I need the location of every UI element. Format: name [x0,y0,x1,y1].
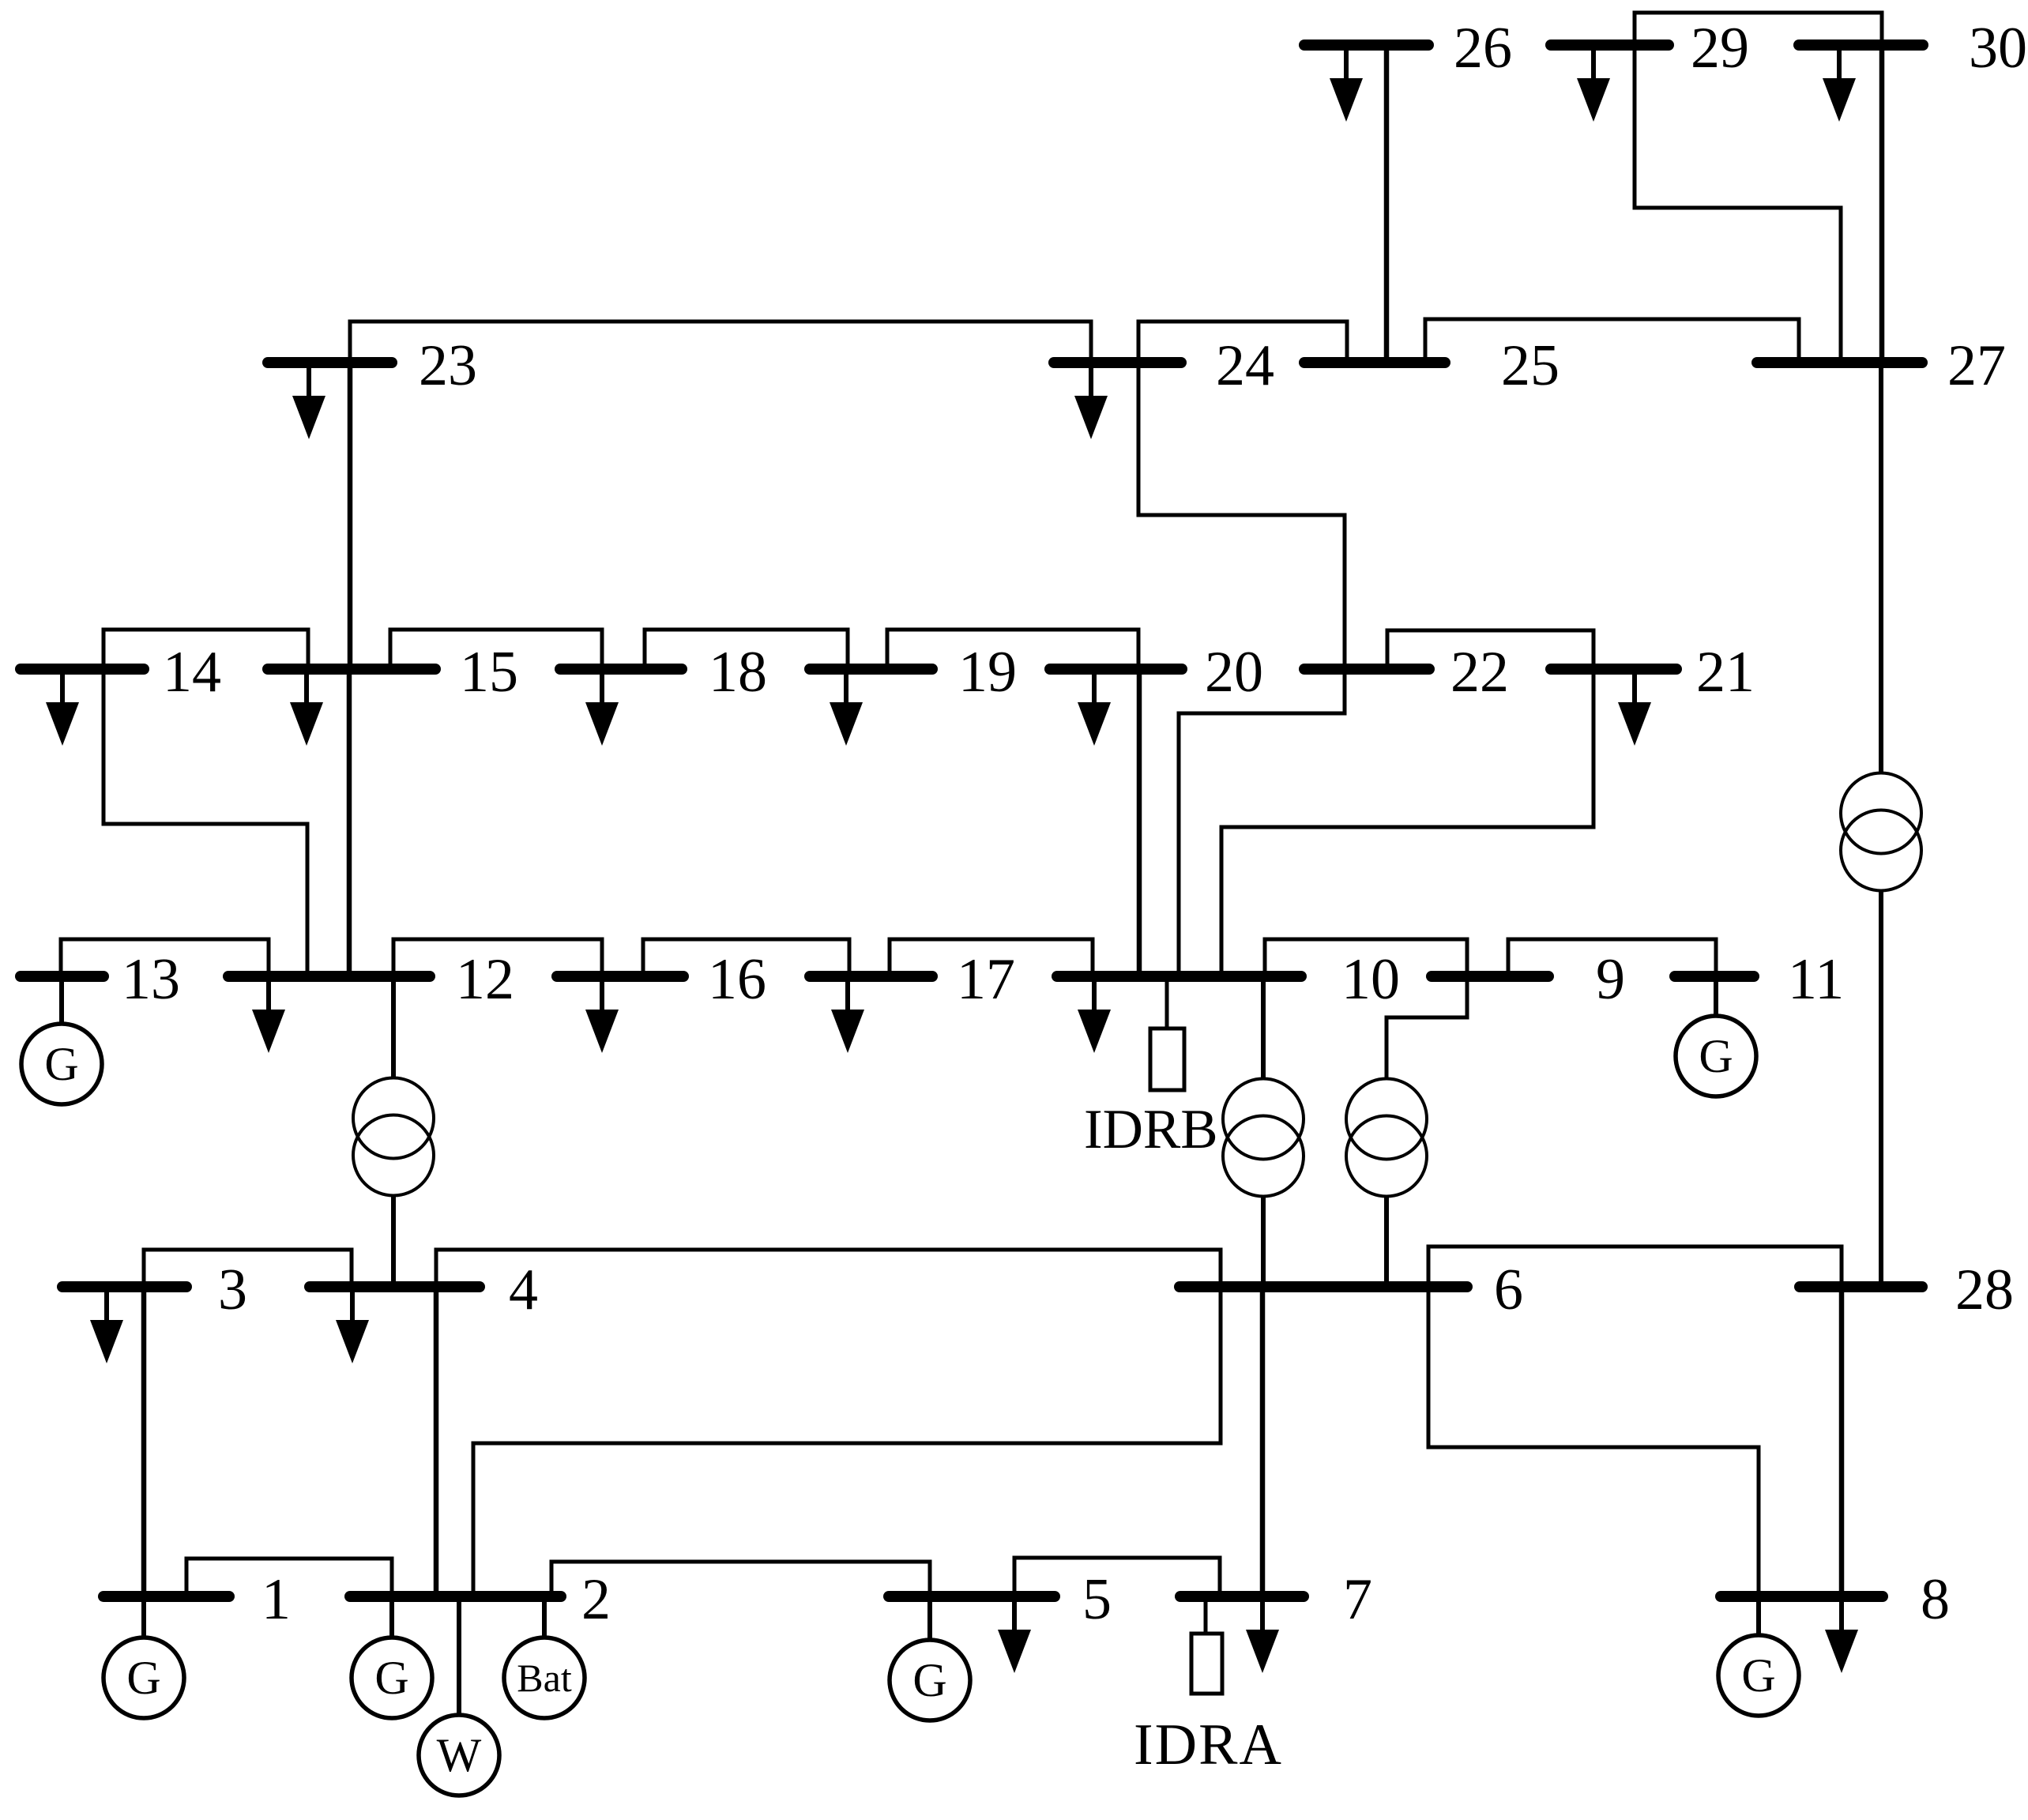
svg-text:25: 25 [1501,333,1560,398]
wire 14-15 [103,630,308,669]
wire 24-25 [1138,322,1347,363]
wire 10-20 [1137,669,1142,976]
load arrow bus 24 [1074,363,1108,439]
svg-text:7: 7 [1343,1567,1372,1632]
transformer 27-28 [1841,363,1921,1287]
svg-text:10: 10 [1341,947,1400,1012]
svg-text:13: 13 [122,947,180,1012]
bus 25 busbar [1304,357,1445,368]
bus 18 busbar [560,664,682,675]
generator G bus13 [21,976,102,1104]
svg-text:9: 9 [1596,947,1625,1012]
wire 23-24 [350,322,1091,363]
wire 10-21 [1221,669,1593,976]
svg-text:11: 11 [1788,947,1844,1012]
bus 17 busbar [810,971,932,982]
wire 25-27 [1425,319,1799,363]
svg-text:19: 19 [958,640,1017,705]
wire 2-6 [473,1287,1221,1596]
wire 10-17 [890,939,1093,976]
svg-text:12: 12 [456,947,514,1012]
wire 19-20 [887,630,1138,669]
wire 6-28 [1428,1247,1842,1287]
bus 28 busbar [1800,1281,1922,1292]
bus 29 busbar [1551,39,1669,51]
wire 1-2 [186,1559,392,1596]
svg-text:22: 22 [1450,640,1509,705]
wire 1-3 [141,1287,147,1596]
bus 24 busbar [1054,357,1181,368]
wire 5-7 [1014,1558,1220,1596]
wire 27-29 [1635,45,1841,363]
bus 22 busbar [1304,664,1429,675]
svg-text:2: 2 [581,1567,611,1632]
svg-text:G: G [44,1038,78,1090]
svg-text:Bat: Bat [517,1656,572,1700]
bus 30 busbar [1799,39,1923,51]
bus 13 busbar [21,971,103,982]
load arrow bus 15 [290,669,323,746]
svg-text:15: 15 [460,640,518,705]
svg-text:W: W [437,1729,482,1781]
svg-text:IDRB: IDRB [1084,1099,1218,1160]
device IDRA on bus 7 [1191,1596,1222,1694]
svg-text:29: 29 [1691,16,1749,81]
svg-text:8: 8 [1921,1567,1950,1632]
wire 16-17 [643,939,849,976]
wire 29-30 [1635,13,1882,45]
svg-text:G: G [374,1652,408,1704]
generator G bus5 [890,1596,970,1720]
wire 9-6 transformer jog [1386,976,1467,1079]
svg-text:1: 1 [261,1567,291,1632]
wire 2-5 [551,1562,930,1596]
load arrow bus 12 [252,976,285,1053]
load arrow bus 10 [1078,976,1111,1053]
bus 19 busbar [810,664,932,675]
wire 10-22 [1179,669,1345,976]
load arrow bus 16 [585,976,619,1053]
bus 3 busbar [62,1281,186,1292]
wind generator W bus2 [419,1596,499,1796]
wire 12-13 [61,939,269,976]
svg-text:30: 30 [1969,16,2027,81]
svg-text:6: 6 [1494,1258,1523,1322]
bus 14 busbar [21,664,144,675]
battery Bat bus2 [504,1596,585,1718]
bus 12 busbar [228,971,430,982]
svg-text:21: 21 [1696,640,1755,705]
svg-text:26: 26 [1454,16,1512,81]
svg-text:17: 17 [957,947,1015,1012]
transformer 9-6 lower [1346,1079,1427,1288]
wire 12-14 [103,669,307,976]
load arrow bus 14 [46,669,79,746]
svg-text:18: 18 [709,640,767,705]
wire 9-11 [1508,939,1716,976]
generator G bus11 [1676,976,1756,1096]
load arrow bus 4 [336,1287,369,1363]
wire 27-30 [1879,45,1885,363]
svg-text:27: 27 [1947,333,2006,398]
transformer 10-6 [1223,976,1304,1287]
bus 27 busbar [1757,357,1922,368]
wire 8-28 [1839,1287,1845,1596]
bus 1 busbar [103,1591,229,1602]
svg-text:G: G [1699,1030,1733,1082]
wire 15-23 [348,363,353,669]
load arrow bus 5 [998,1596,1031,1673]
svg-text:5: 5 [1082,1567,1112,1632]
load arrow bus 29 [1577,45,1610,122]
load arrow bus 8 [1825,1596,1858,1673]
wire 9-10 [1265,939,1467,976]
bus 16 busbar [557,971,683,982]
svg-text:3: 3 [218,1258,247,1322]
wire 12-16 [393,939,602,976]
svg-text:14: 14 [163,640,221,705]
svg-text:IDRA: IDRA [1134,1713,1283,1777]
wire 15-18 [390,630,602,669]
load arrow bus 17 [831,976,864,1053]
svg-text:4: 4 [509,1258,538,1322]
load arrow bus 30 [1823,45,1856,122]
bus 23 busbar [268,357,392,368]
svg-text:23: 23 [419,333,477,398]
bus 7 busbar [1180,1591,1304,1602]
bus 2 busbar [350,1591,561,1602]
svg-text:G: G [1741,1649,1775,1702]
generator G bus8 [1718,1596,1799,1716]
wire 12-15 [347,669,352,976]
generator G bus2 [352,1596,432,1718]
load arrow bus 23 [292,363,325,439]
device IDRB on bus 10 [1150,976,1184,1090]
bus 15 busbar [268,664,435,675]
svg-text:G: G [912,1654,946,1706]
wire 6-8 [1428,1287,1759,1596]
svg-text:G: G [126,1652,160,1704]
bus 9 busbar [1432,971,1548,982]
bus 21 busbar [1551,664,1676,675]
bus 8 busbar [1721,1591,1883,1602]
bus 10 busbar [1057,971,1301,982]
svg-text:20: 20 [1205,640,1263,705]
load arrow bus 19 [830,669,863,746]
wire 4-6 [436,1250,1221,1287]
bus 5 busbar [889,1591,1055,1602]
wire 6-7 [1260,1287,1266,1596]
transformer 12-4 [353,976,434,1287]
wire 21-22 [1387,630,1593,669]
bus 26 busbar [1304,39,1428,51]
load arrow bus 18 [585,669,619,746]
svg-text:24: 24 [1216,333,1274,398]
generator G bus1 [103,1596,184,1718]
wire 3-4 [144,1250,352,1287]
load arrow bus 21 [1618,669,1651,746]
load arrow bus 20 [1078,669,1111,746]
svg-text:16: 16 [708,947,766,1012]
load arrow bus 3 [90,1287,123,1363]
bus 6 busbar [1180,1281,1467,1292]
load arrow bus 26 [1330,45,1363,122]
bus 20 busbar [1050,664,1182,675]
load arrow bus 7 [1246,1596,1279,1673]
wire 2-4 [434,1287,439,1596]
bus 11 busbar [1675,971,1754,982]
wire 25-26 [1384,45,1390,363]
wire 22-24 [1138,363,1345,669]
svg-text:28: 28 [1955,1258,2014,1322]
wire 18-19 [645,630,848,669]
bus 4 busbar [310,1281,480,1292]
